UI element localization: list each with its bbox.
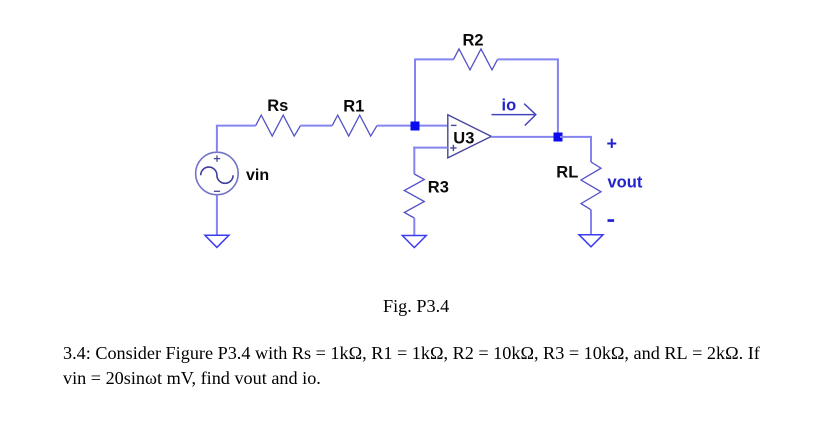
io arrow [492,104,536,126]
ground under vin [205,235,229,247]
svg-text:R3: R3 [428,178,449,196]
op-amp U3 [448,115,492,158]
caption Fig. P3.4 [383,296,449,317]
svg-text:U3: U3 [453,130,474,148]
svg-text:RL: RL [556,163,578,181]
wire: feedback left vertical [414,59,416,123]
ground under R3 [402,236,426,248]
wire: R3 vertical upper [413,147,415,174]
node B junction [554,133,563,142]
wire: feedback top right segment [498,58,559,60]
wire: feedback top left segment [414,58,454,60]
svg-text:vout: vout [608,174,643,192]
wire: R3 horizontal to op-amp non-inverting input [413,147,448,149]
svg-text:R2: R2 [463,31,484,49]
wire: Rs to R1 [301,125,333,127]
resistor R2 [454,49,498,70]
wire: vin top vertical [216,126,218,153]
wire: vin bottom to ground [216,195,218,236]
wire: vin corner to Rs [216,125,256,127]
svg-text:vin: vin [246,167,269,184]
wire: R1 to node A [377,125,412,127]
wire: RL to ground [590,210,592,235]
svg-text:Rs: Rs [267,97,288,115]
voltage source vin [196,152,239,195]
wire: feedback right vertical [557,59,559,135]
problem text [63,341,760,391]
wire: op-amp output to node B [491,136,556,138]
node A junction [411,122,420,131]
svg-text:io: io [502,96,517,114]
resistor RL [581,162,601,210]
svg-text:R1: R1 [343,97,364,115]
wire: node B to RL corner and vertical [560,137,591,162]
wire: R3 to ground [413,218,415,236]
resistor R3 [404,174,424,218]
label - output polarity [608,219,615,222]
resistor Rs [256,115,301,136]
ground under RL [579,235,603,247]
resistor R1 [332,115,377,136]
wire: node A to op-amp inverting input [416,125,448,127]
svg-text:+: + [607,134,618,154]
